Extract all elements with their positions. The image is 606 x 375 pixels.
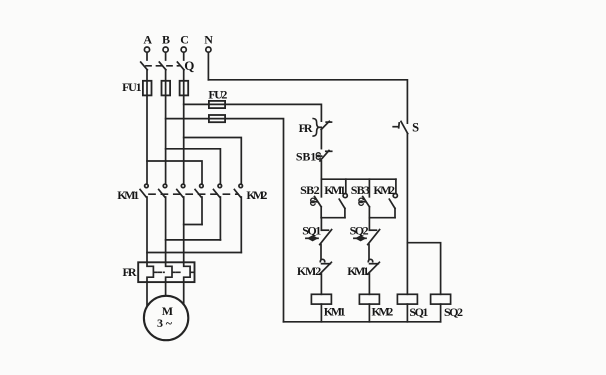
svg-text:FU2: FU2 <box>208 87 227 101</box>
svg-text:SQ2: SQ2 <box>444 305 463 319</box>
fuse FU2 lower <box>209 115 225 122</box>
svg-text:N: N <box>204 32 213 46</box>
svg-text:A: A <box>143 33 152 47</box>
fuse FU2 upper <box>209 101 225 108</box>
wire KM2 pole5 output to B phase <box>166 239 221 241</box>
wire A to KM2 pole 4 <box>147 161 202 183</box>
terminal A <box>144 47 149 60</box>
coil KM1 <box>311 294 331 322</box>
svg-text:3 ~: 3 ~ <box>157 316 173 330</box>
coil SQ1 <box>397 294 417 322</box>
wire B to KM2 pole 5 <box>166 149 221 184</box>
wire joining SB3 and KM2 aux <box>369 217 395 219</box>
svg-text:KM2: KM2 <box>372 305 394 319</box>
motor M <box>144 282 188 340</box>
svg-text:SQ1: SQ1 <box>409 305 428 319</box>
limit switch SQ2 (NO) <box>354 230 380 260</box>
wire C to FU2 upper fuse and on to control rung <box>184 104 322 121</box>
contactor KM1 main contacts <box>140 184 185 262</box>
svg-text:SB3: SB3 <box>351 183 370 197</box>
wire KM2 pole6 output to A phase <box>147 252 241 254</box>
contactor KM2 main contacts <box>195 184 242 252</box>
switch S <box>393 121 408 294</box>
interlock contact KM1 (NC) <box>368 259 380 294</box>
svg-text:KM1: KM1 <box>117 188 139 202</box>
thermal relay FR heater box <box>138 262 194 282</box>
wire C to KM2 pole 6 <box>184 138 242 184</box>
fuse FU1 pole B <box>162 70 171 184</box>
wire KM2 pole4 output to C phase <box>184 224 202 226</box>
stop button SB1 (NC) <box>316 150 331 179</box>
coil SQ2 <box>431 294 451 322</box>
svg-text:KM1: KM1 <box>324 183 346 197</box>
svg-text:SB1: SB1 <box>296 150 316 164</box>
wire left rung down to SQ1 <box>320 218 322 231</box>
svg-text:KM1: KM1 <box>324 305 346 319</box>
svg-text:S: S <box>412 121 419 135</box>
svg-text:SB2: SB2 <box>300 183 320 197</box>
wire right rung down to SQ2 <box>368 218 370 231</box>
fuse FU1 pole C <box>180 70 189 184</box>
terminal B <box>163 47 168 60</box>
wire N bus to S <box>208 80 407 123</box>
svg-text:Q: Q <box>184 58 194 73</box>
terminal C <box>181 47 186 60</box>
FR heater elements <box>147 262 193 282</box>
interlock contact KM2 (NC) <box>320 259 332 294</box>
limit switch SQ1 (NO) <box>306 230 332 260</box>
svg-text:B: B <box>162 33 170 47</box>
coil KM2 <box>359 294 379 322</box>
svg-text:KM1: KM1 <box>347 264 369 278</box>
terminal N <box>206 47 211 80</box>
switch Q <box>141 62 184 70</box>
aux contact KM2 (NO, seal-in) <box>389 179 397 218</box>
svg-text:KM2: KM2 <box>297 264 321 278</box>
wire B to FU2 lower fuse and on to bottom bus <box>166 119 284 322</box>
svg-text:SQ1: SQ1 <box>302 224 321 238</box>
mechanical link dashes of KM1 KM2 <box>149 193 238 195</box>
top bus of parallel branches <box>321 178 396 180</box>
wire branch to SQ2 coil <box>407 243 440 295</box>
aux contact KM1 (NO, seal-in) <box>339 179 347 218</box>
bottom bus wire <box>284 321 441 323</box>
svg-text:FR: FR <box>299 121 313 135</box>
svg-text:KM2: KM2 <box>373 183 395 197</box>
svg-text:C: C <box>180 33 189 47</box>
start button SB2 (NO) <box>311 179 322 218</box>
svg-text:FU1: FU1 <box>122 80 142 94</box>
svg-text:SQ2: SQ2 <box>350 224 369 238</box>
fuse FU1 pole A <box>143 70 152 184</box>
start button SB3 (NO) <box>359 179 370 218</box>
svg-text:FR: FR <box>123 265 137 279</box>
control rung: FR NC contact <box>313 119 331 149</box>
wire joining SB2 and KM1 aux <box>321 217 345 219</box>
svg-text:KM2: KM2 <box>246 188 267 202</box>
